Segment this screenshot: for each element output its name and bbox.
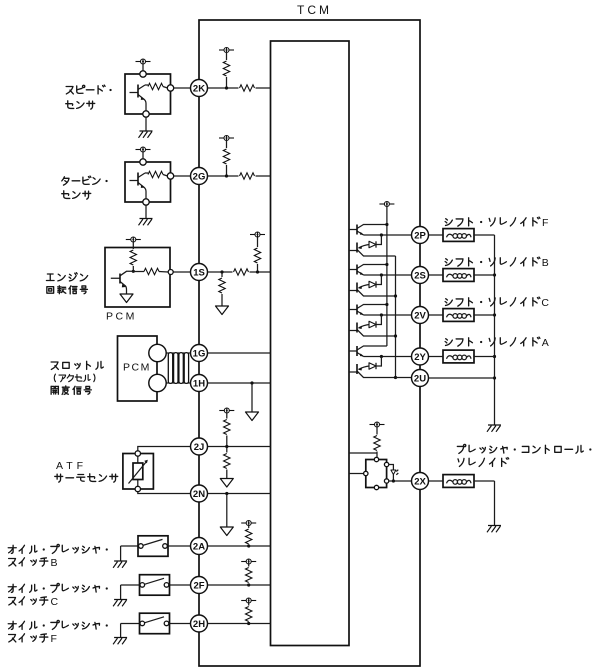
svg-text:2G: 2G (193, 171, 206, 182)
svg-text:C: C (541, 297, 549, 309)
svg-text:2X: 2X (414, 476, 426, 487)
svg-text:2S: 2S (414, 270, 426, 281)
svg-text:TCM: TCM (297, 3, 332, 17)
svg-text:1G: 1G (193, 348, 206, 359)
svg-text:2A: 2A (193, 541, 205, 552)
svg-text:B: B (542, 257, 549, 269)
svg-text:PCM: PCM (106, 311, 137, 323)
svg-text:ATF: ATF (56, 460, 87, 472)
svg-text:2U: 2U (414, 373, 426, 384)
svg-text:F: F (542, 217, 548, 229)
svg-text:2P: 2P (414, 230, 426, 241)
svg-text:A: A (542, 337, 549, 349)
svg-text:1S: 1S (193, 267, 205, 278)
svg-text:C: C (51, 596, 59, 608)
svg-text:2J: 2J (194, 442, 205, 453)
svg-text:PCM: PCM (123, 362, 151, 374)
svg-text:1H: 1H (193, 378, 205, 389)
svg-text:F: F (51, 633, 57, 645)
svg-text:2K: 2K (193, 83, 205, 94)
svg-text:2N: 2N (193, 489, 205, 500)
svg-text:2V: 2V (414, 310, 426, 321)
svg-text:2F: 2F (193, 580, 204, 591)
svg-text:2Y: 2Y (414, 352, 426, 363)
svg-text:2H: 2H (193, 619, 205, 630)
svg-text:B: B (51, 557, 58, 569)
